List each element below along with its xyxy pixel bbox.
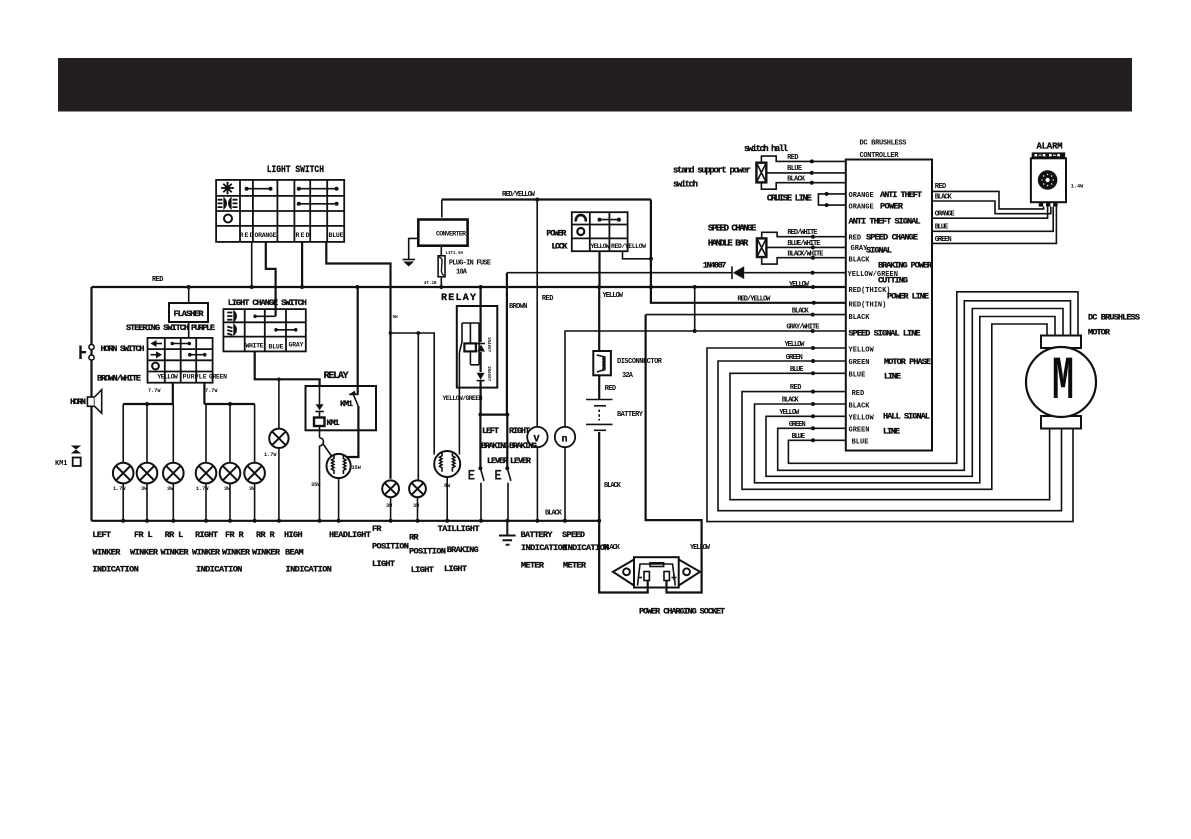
- light switch icon: sun: [221, 182, 234, 195]
- svg-text:BLUE: BLUE: [792, 433, 806, 441]
- svg-text:WHITE: WHITE: [246, 343, 264, 350]
- light switch icon: off circle: [224, 215, 232, 223]
- steering column labels: [157, 374, 227, 381]
- controller internal labels column: [848, 192, 898, 446]
- wire speed red/white: [762, 232, 846, 238]
- lamp RR position: [409, 480, 426, 497]
- svg-text:DISCONNECTOR: DISCONNECTOR: [617, 358, 663, 366]
- node blue/white dot: [811, 245, 815, 249]
- node lever bar right: [505, 413, 509, 417]
- svg-text:RED: RED: [935, 183, 947, 191]
- light change row1 contact: [253, 315, 275, 319]
- svg-text:35W: 35W: [352, 465, 362, 471]
- svg-text:METER: METER: [563, 561, 587, 571]
- svg-text:GREEN: GREEN: [209, 374, 227, 381]
- svg-text:RED/YELLOW: RED/YELLOW: [737, 296, 771, 304]
- svg-text:DC BRUSHLESS: DC BRUSHLESS: [1088, 313, 1140, 323]
- svg-text:3W: 3W: [249, 486, 256, 492]
- svg-text:YELLOW: YELLOW: [779, 409, 800, 417]
- node RR position tap: [416, 331, 420, 335]
- wire braking lever bar: [480, 414, 507, 416]
- wire n meter to speed signal line: [565, 331, 846, 427]
- svg-text:RR: RR: [409, 533, 419, 543]
- relay switch KM1 blade: [354, 395, 359, 407]
- svg-text:LINE: LINE: [884, 372, 901, 382]
- node left feeder tap: [145, 402, 149, 406]
- light switch row1 contact bar B: [297, 187, 339, 191]
- wire stand switch blue: [766, 172, 846, 174]
- svg-text:BLACK: BLACK: [782, 397, 800, 405]
- svg-text:BLACK: BLACK: [849, 257, 871, 265]
- horn switch pushbutton: [81, 344, 95, 360]
- svg-text:PURPLE: PURPLE: [191, 323, 215, 333]
- svg-text:LIGHT SWITCH: LIGHT SWITCH: [267, 165, 324, 176]
- wire alarm black: [932, 201, 1051, 214]
- svg-text:RED/WHITE: RED/WHITE: [787, 229, 817, 237]
- svg-text:TAILLIGHT: TAILLIGHT: [438, 524, 480, 534]
- brake relay inner frame: [462, 323, 479, 365]
- wire steering yellow col to left feeder: [172, 383, 174, 404]
- svg-text:1.7W: 1.7W: [113, 486, 126, 492]
- wire position light branch: [391, 333, 435, 455]
- svg-text:BLUE: BLUE: [935, 224, 949, 232]
- bottom caption FR POSITION LIGHT: [372, 524, 409, 569]
- svg-text:RED: RED: [296, 232, 310, 239]
- svg-text:7.7W: 7.7W: [148, 388, 161, 394]
- wire alarm blue: [932, 207, 1053, 232]
- wire headlight left terminal diagonal: [323, 444, 332, 457]
- cruise line loop: [818, 194, 845, 205]
- node black/white dot: [811, 256, 815, 260]
- svg-text:MOTOR: MOTOR: [1088, 328, 1111, 338]
- svg-text:RR R: RR R: [256, 530, 275, 540]
- node relay feed tap: [355, 285, 359, 289]
- wire left lever upper: [479, 415, 481, 469]
- wire hall yellow: [766, 309, 1063, 477]
- wire relay coil internal: [319, 386, 321, 418]
- motor bottom terminal box: [1041, 416, 1081, 429]
- svg-text:INDICATION: INDICATION: [521, 543, 567, 553]
- wire taillight right from brake relay: [458, 353, 460, 455]
- alarm wire labels: [935, 183, 955, 244]
- svg-text:RED(THIN): RED(THIN): [849, 301, 887, 309]
- wire bus to disconnector: [598, 287, 600, 351]
- position lamp bus wires: [391, 497, 418, 521]
- wire white col to headlight relay: [255, 351, 320, 386]
- alarm pins: [1039, 202, 1058, 206]
- right brake switch: [496, 466, 511, 521]
- converter box: [418, 220, 467, 246]
- svg-text:M: M: [1052, 348, 1074, 417]
- svg-text:BLACK/WHITE: BLACK/WHITE: [787, 251, 823, 259]
- svg-text:LIGHT: LIGHT: [444, 564, 467, 574]
- light switch row2 contact bar: [297, 202, 339, 206]
- wire right winker feeder: [204, 403, 254, 405]
- svg-text:PURPLE: PURPLE: [183, 374, 207, 381]
- brake relay coil: [464, 343, 476, 351]
- svg-text:POWER: POWER: [546, 229, 567, 239]
- svg-text:BLUE: BLUE: [849, 371, 866, 379]
- svg-text:HORN: HORN: [70, 397, 86, 407]
- svg-text:PLUG-IN FUSE: PLUG-IN FUSE: [449, 260, 491, 268]
- node black controller dot: [811, 313, 815, 317]
- svg-text:BLACK: BLACK: [787, 176, 806, 184]
- svg-text:GRAY/WHITE: GRAY/WHITE: [786, 324, 819, 332]
- plug-in fuse: [438, 256, 445, 277]
- svg-text:4T.1B: 4T.1B: [424, 282, 437, 286]
- svg-text:LIGHT: LIGHT: [411, 565, 434, 575]
- svg-text:WINKER: WINKER: [222, 548, 251, 558]
- svg-text:CRUISE LINE: CRUISE LINE: [767, 194, 813, 204]
- svg-text:YELLOW: YELLOW: [157, 374, 177, 381]
- bottom caption BATTERY INDICATION METER: [521, 530, 568, 571]
- label RIGHT BRAKING LEVER: [509, 426, 537, 466]
- svg-text:BLACK: BLACK: [792, 308, 810, 316]
- node red/white dot: [811, 235, 815, 239]
- node gray-white tap: [693, 285, 697, 289]
- node yellow/green controller dot: [811, 271, 815, 275]
- svg-text:BLACK: BLACK: [849, 402, 871, 410]
- svg-text:HANDLE BAR: HANDLE BAR: [708, 239, 749, 249]
- svg-text:YELLOW: YELLOW: [591, 243, 610, 250]
- bottom caption RR POSITION LIGHT: [409, 533, 446, 576]
- bottom caption BRAKING LIGHT: [444, 545, 479, 574]
- node red-yellow tap: [649, 285, 653, 289]
- wire hall red: [742, 324, 1047, 489]
- power lock off circle: [577, 228, 584, 235]
- svg-text:FR: FR: [372, 524, 382, 534]
- wire power lock yellow col to bus: [598, 251, 600, 287]
- wire flasher to bus: [188, 287, 190, 303]
- lamp RR L winker: [163, 463, 184, 484]
- svg-text:BLUE/WHITE: BLUE/WHITE: [787, 240, 820, 248]
- svg-text:HIGH: HIGH: [284, 530, 303, 540]
- svg-text:LIGHT: LIGHT: [372, 559, 395, 569]
- wire black line to socket plus: [646, 315, 702, 593]
- headlight relay coil KM1: [314, 418, 325, 427]
- V meter: [527, 427, 547, 447]
- wire battery to socket minus: [599, 432, 648, 593]
- wire braking power cutting line: [507, 272, 846, 274]
- svg-text:BROWN: BROWN: [509, 303, 528, 311]
- wire V meter top (RED): [536, 200, 538, 427]
- light switch row1 contact bar A: [245, 187, 273, 191]
- phase hall wire color labels: [779, 341, 806, 441]
- svg-text:RED: RED: [790, 384, 802, 392]
- lamp FR L winker: [137, 463, 158, 484]
- svg-text:BEAM: BEAM: [285, 548, 304, 558]
- node n line controller dot: [811, 329, 815, 333]
- light change icon high beam: [227, 312, 236, 321]
- svg-text:KM1: KM1: [327, 418, 340, 428]
- node right feeder tap: [228, 402, 232, 406]
- winker wattage labels: [113, 486, 256, 492]
- n meter: [555, 427, 575, 447]
- wire disconnector to battery: [598, 375, 600, 399]
- svg-text:1.7W: 1.7W: [264, 452, 277, 458]
- svg-text:POWER CHARGING SOCKET: POWER CHARGING SOCKET: [639, 607, 725, 617]
- svg-text:BATTERY: BATTERY: [617, 411, 644, 419]
- node red/yellow join: [649, 257, 653, 261]
- relay switch KM1 contact bar: [349, 393, 358, 395]
- svg-text:INDICATION: INDICATION: [92, 565, 138, 575]
- svg-text:1.7W: 1.7W: [196, 486, 209, 492]
- wire red/yellow top line: [442, 198, 651, 200]
- motor body: [1026, 347, 1096, 417]
- svg-text:YELLOW: YELLOW: [785, 341, 806, 349]
- svg-text:ORANGE: ORANGE: [849, 192, 874, 200]
- svg-text:RED: RED: [542, 295, 554, 303]
- lamp FR position: [382, 480, 399, 497]
- node high beam tap: [277, 378, 281, 382]
- wire black socket line: [646, 314, 846, 316]
- svg-text:RED: RED: [787, 154, 799, 162]
- svg-text:switch hall: switch hall: [744, 144, 789, 154]
- wire brake relay through: [480, 352, 482, 415]
- svg-text:ANTI THEFT: ANTI THEFT: [880, 190, 922, 200]
- svg-text:3W: 3W: [413, 503, 420, 509]
- bottom caption LEFT WINKER INDICATION: [92, 530, 138, 575]
- power charging socket body: [613, 557, 700, 587]
- svg-text:STEERING SWITCH: STEERING SWITCH: [126, 323, 189, 333]
- ground symbol converter: [403, 260, 416, 267]
- wire light switch BLUE col to position lights: [326, 242, 390, 479]
- wire brown drop: [506, 273, 508, 415]
- svg-text:GREEN: GREEN: [849, 359, 870, 367]
- wire phase green: [718, 361, 1062, 511]
- power lock key icon: [576, 215, 586, 221]
- svg-text:FR L: FR L: [134, 530, 153, 540]
- wire phase yellow: [707, 348, 1073, 522]
- battery: [586, 400, 613, 431]
- diode 1N4007: [732, 266, 744, 279]
- brake relay box: [457, 306, 498, 388]
- wire taillight to bus: [446, 477, 448, 521]
- wire bottom black bus: [92, 520, 600, 522]
- svg-text:8W: 8W: [444, 483, 451, 489]
- node red col tap: [250, 285, 254, 289]
- svg-text:GREEN: GREEN: [786, 354, 803, 362]
- svg-text:SIGNAL: SIGNAL: [866, 246, 892, 256]
- svg-text:RED: RED: [849, 235, 862, 243]
- svg-text:BLUE: BLUE: [790, 366, 804, 374]
- power lock table: [572, 212, 628, 251]
- wire converter to fuse: [440, 246, 442, 257]
- node fuse tap: [439, 285, 443, 289]
- svg-text:RED/YELLOW: RED/YELLOW: [502, 191, 536, 199]
- svg-text:YELLOW: YELLOW: [849, 347, 875, 355]
- svg-text:DC BRUSHLESS: DC BRUSHLESS: [860, 140, 907, 148]
- taillight filaments: [440, 453, 455, 472]
- svg-text:ORANGE: ORANGE: [849, 204, 874, 212]
- svg-text:RED: RED: [152, 276, 164, 284]
- node red stand dot: [810, 159, 814, 163]
- socket plus prong: [664, 572, 677, 581]
- alarm box: [1031, 158, 1066, 202]
- svg-text:LIGHT CHANGE SWITCH: LIGHT CHANGE SWITCH: [228, 298, 307, 308]
- wire right lever upper: [506, 415, 508, 469]
- svg-text:RED: RED: [240, 232, 254, 239]
- node V tap on red/yellow line: [535, 198, 539, 202]
- svg-text:LEVER: LEVER: [510, 456, 532, 466]
- svg-text:SPEED SIGNAL LINE: SPEED SIGNAL LINE: [849, 329, 921, 339]
- light change column labels: [246, 342, 304, 351]
- steering icon right arrow: [151, 351, 163, 358]
- svg-text:CUTTING: CUTTING: [878, 276, 908, 286]
- taillight bulb: [434, 451, 460, 477]
- wire steering green col to right feeder: [203, 383, 205, 404]
- bottom caption FR R WINKER: [222, 530, 251, 558]
- wire converter ground: [409, 238, 419, 259]
- alarm speaker: [1038, 170, 1058, 190]
- wire power lock red/yellow col: [623, 251, 651, 259]
- svg-text:WINKER: WINKER: [192, 548, 221, 558]
- svg-text:BRAKING: BRAKING: [447, 545, 479, 555]
- wire hall black: [755, 317, 1056, 483]
- svg-text:FR R: FR R: [225, 530, 244, 540]
- headlight relay diode: [315, 404, 323, 411]
- svg-text:9W: 9W: [393, 316, 399, 320]
- svg-text:BLACK: BLACK: [545, 510, 563, 518]
- horn speaker: [87, 390, 101, 414]
- svg-text:n: n: [562, 435, 568, 446]
- bottom caption RR L WINKER: [161, 530, 190, 558]
- socket inner trapezoid: [638, 564, 676, 586]
- svg-text:V: V: [534, 435, 540, 446]
- wire light switch ORANGE col to light change switch: [266, 242, 276, 316]
- position wattage labels: [386, 503, 420, 509]
- bottom caption HIGH BEAM INDICATION: [284, 530, 332, 575]
- svg-text:RIGHT: RIGHT: [195, 530, 218, 540]
- wire n meter to bus: [564, 447, 566, 521]
- node flasher tap: [187, 285, 191, 289]
- svg-text:10A: 10A: [456, 269, 468, 277]
- node disconnector tap: [597, 285, 601, 289]
- wire left winker feeder: [123, 403, 173, 405]
- svg-text:3W: 3W: [224, 486, 231, 492]
- svg-text:3W: 3W: [167, 486, 174, 492]
- svg-text:1N4007: 1N4007: [486, 366, 490, 382]
- svg-text:1.4W: 1.4W: [1071, 184, 1084, 190]
- steering icon off circle: [152, 363, 159, 370]
- wire light switch RED2 col to main bus: [301, 242, 303, 287]
- svg-text:ANTI THEFT SIGNAL: ANTI THEFT SIGNAL: [849, 217, 921, 227]
- svg-text:RELAY: RELAY: [441, 293, 476, 304]
- node cruise top: [825, 192, 829, 196]
- left brake switch: [469, 466, 484, 521]
- headlight bulb: [327, 454, 351, 478]
- wire phase blue: [730, 373, 1050, 499]
- lamp high beam indication: [269, 429, 288, 448]
- bottom caption SPEED INDICATION METER: [562, 530, 609, 571]
- node red2 col tap: [300, 285, 304, 289]
- svg-text:POSITION: POSITION: [372, 542, 409, 552]
- svg-text:ORANGE: ORANGE: [935, 211, 955, 219]
- svg-text:RED/YELLOW: RED/YELLOW: [611, 243, 646, 250]
- wire hall green: [778, 301, 1071, 471]
- wire relay switch to headlight: [346, 406, 358, 457]
- svg-text:SPEED: SPEED: [562, 530, 585, 540]
- ground symbol on bottom bus: [499, 521, 516, 545]
- wire left bus vertical: [90, 287, 92, 521]
- svg-text:RR L: RR L: [165, 530, 184, 540]
- svg-text:SPEED CHANGE: SPEED CHANGE: [708, 224, 757, 234]
- svg-text:switch: switch: [673, 180, 698, 190]
- svg-text:L3T1.9A: L3T1.9A: [446, 252, 464, 256]
- lamp RR R winker: [244, 463, 265, 484]
- wire speed black/white: [762, 257, 846, 264]
- winker lamp wires: [123, 404, 254, 521]
- svg-text:POSITION: POSITION: [409, 547, 446, 557]
- wire main red bus: [92, 286, 846, 288]
- svg-text:RED: RED: [605, 385, 617, 393]
- node relay coil bus: [318, 519, 322, 523]
- svg-text:KM1: KM1: [55, 460, 68, 468]
- svg-text:GREEN: GREEN: [935, 236, 952, 244]
- svg-text:SPEED CHANGE: SPEED CHANGE: [866, 233, 918, 243]
- disconnector box: [593, 351, 611, 375]
- wire high beam indicator tap: [278, 379, 280, 428]
- svg-text:HORN SWITCH: HORN SWITCH: [101, 344, 145, 354]
- svg-text:BLACK: BLACK: [604, 482, 622, 490]
- light switch column labels: [240, 232, 344, 239]
- node red-thin controller dot: [812, 301, 816, 305]
- node blue stand dot: [810, 171, 814, 175]
- wire gray/white drop: [694, 287, 696, 331]
- alarm top strip: [1032, 152, 1066, 157]
- wire flasher to steering switch: [188, 322, 190, 338]
- svg-text:RED(THICK): RED(THICK): [849, 287, 891, 295]
- wire alarm orange: [932, 207, 1048, 219]
- svg-text:YELLOW: YELLOW: [603, 292, 624, 300]
- wire alarm green: [932, 207, 1056, 244]
- wire RR position lamp: [417, 333, 419, 481]
- svg-text:CONVERTER: CONVERTER: [436, 231, 466, 238]
- svg-text:KM1: KM1: [340, 399, 353, 409]
- steering row2 contact bar: [188, 353, 207, 357]
- stand switch symbol: [756, 163, 766, 183]
- node black stand dot: [810, 181, 814, 185]
- disconnector coil glyph: [597, 355, 605, 372]
- node cruise bottom: [825, 203, 829, 207]
- svg-text:INDICATION: INDICATION: [563, 543, 609, 553]
- svg-text:BLACK: BLACK: [849, 314, 871, 322]
- svg-text:GREEN: GREEN: [789, 421, 806, 429]
- bottom caption FR L WINKER: [130, 530, 159, 558]
- label LEFT BRAKING LEVER: [481, 426, 509, 466]
- svg-text:1N4007: 1N4007: [703, 261, 727, 271]
- wire stand switch red: [761, 156, 845, 163]
- svg-text:POWER: POWER: [880, 202, 904, 212]
- light change icon low beam: [227, 325, 236, 335]
- svg-text:BROWN/WHITE: BROWN/WHITE: [97, 374, 141, 384]
- node brake relay tap: [479, 285, 483, 289]
- wire stand switch black: [761, 182, 845, 189]
- speed change switch symbol: [757, 238, 767, 257]
- wire V meter to bus: [536, 447, 538, 521]
- brake relay diode upper: [477, 337, 490, 353]
- socket minus prong: [638, 572, 650, 581]
- svg-text:WINKER: WINKER: [130, 548, 159, 558]
- svg-text:LEFT: LEFT: [92, 530, 111, 540]
- bottom bus junction nodes: [121, 519, 601, 523]
- lamp FR R winker: [220, 463, 241, 484]
- brake relay feed from bus: [480, 287, 482, 342]
- svg-text:BLUE: BLUE: [269, 344, 284, 351]
- headlight filaments: [332, 456, 346, 475]
- svg-text:32A: 32A: [622, 372, 634, 380]
- svg-text:INDICATION: INDICATION: [286, 565, 332, 575]
